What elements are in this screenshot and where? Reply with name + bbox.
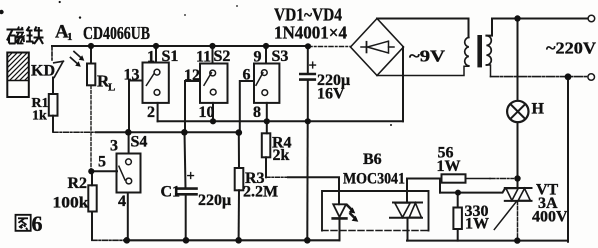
svg-text:5: 5 (98, 154, 106, 171)
svg-text:12: 12 (184, 67, 200, 84)
svg-text:CD4066UB: CD4066UB (83, 23, 150, 43)
svg-text:1k: 1k (32, 109, 47, 124)
svg-text:B6: B6 (363, 151, 382, 168)
svg-text:400V: 400V (532, 209, 568, 226)
svg-text:MOC3041: MOC3041 (343, 171, 405, 188)
svg-text:9: 9 (254, 49, 262, 66)
svg-text:6: 6 (32, 211, 43, 236)
svg-text:R2: R2 (68, 175, 88, 192)
svg-text:2k: 2k (273, 147, 290, 164)
svg-text:16V: 16V (317, 86, 345, 103)
svg-text:H: H (532, 101, 545, 118)
svg-text:3: 3 (110, 138, 118, 155)
svg-text:100k: 100k (53, 195, 89, 212)
svg-text:+: + (309, 58, 317, 74)
svg-text:~9V: ~9V (409, 47, 445, 66)
svg-text:6: 6 (243, 67, 251, 84)
svg-text:1: 1 (147, 49, 155, 66)
svg-text:10: 10 (199, 104, 215, 121)
svg-text:1: 1 (67, 31, 73, 43)
svg-text:4: 4 (118, 193, 126, 210)
svg-text:2: 2 (147, 104, 155, 121)
svg-text:KD: KD (31, 63, 55, 80)
svg-text:~220V: ~220V (546, 39, 596, 58)
svg-text:1W: 1W (465, 216, 489, 233)
svg-text:VD1~VD4: VD1~VD4 (274, 5, 342, 25)
svg-text:+: + (187, 169, 195, 185)
svg-text:1W: 1W (437, 158, 461, 175)
svg-text:1N4001×4: 1N4001×4 (274, 23, 347, 43)
svg-text:C1: C1 (161, 184, 181, 201)
svg-text:2.2M: 2.2M (243, 184, 278, 201)
svg-text:220μ: 220μ (198, 192, 231, 209)
svg-text:11: 11 (196, 49, 211, 66)
svg-text:L: L (108, 82, 115, 94)
svg-text:S3: S3 (272, 48, 289, 65)
svg-text:13: 13 (124, 67, 140, 84)
svg-text:S4: S4 (131, 134, 148, 151)
svg-text:8: 8 (253, 104, 261, 121)
svg-text:S1: S1 (162, 48, 179, 65)
svg-text:S2: S2 (214, 48, 231, 65)
